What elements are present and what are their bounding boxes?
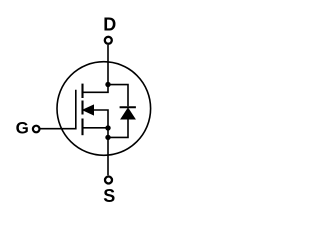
svg-text:G: G [16, 119, 29, 138]
svg-text:S: S [103, 186, 115, 206]
svg-text:D: D [103, 15, 116, 35]
